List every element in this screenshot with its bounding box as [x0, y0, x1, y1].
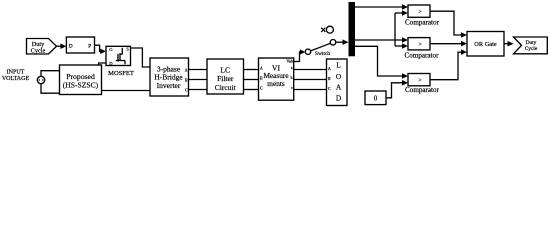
svg-text:LC: LC	[220, 65, 230, 74]
svg-text:O: O	[336, 72, 342, 81]
svg-text:(HS-SZSC): (HS-SZSC)	[63, 81, 99, 90]
svg-text:b: b	[291, 76, 293, 80]
wire source bottom to Proposed	[41, 84, 60, 94]
svg-text:>: >	[418, 78, 421, 84]
wires VI to LOAD	[294, 70, 327, 90]
svg-text:A: A	[260, 67, 263, 71]
mux bar	[349, 2, 356, 56]
svg-text:A: A	[328, 67, 331, 71]
switch common circle	[305, 49, 310, 54]
svg-text:INPUT: INPUT	[7, 70, 25, 76]
svg-text:S: S	[126, 47, 129, 52]
wires inverter to LC filter	[189, 70, 208, 90]
block LC Filter Circuit	[207, 59, 244, 94]
MOSFET symbol inside block	[116, 48, 126, 65]
svg-text:Filter: Filter	[217, 74, 234, 83]
svg-text:P: P	[88, 44, 91, 50]
svg-text:Comparator: Comparator	[405, 19, 440, 27]
MOSFET block	[106, 46, 131, 66]
svg-text:Cycle: Cycle	[525, 46, 538, 52]
block VI Measurements	[259, 58, 294, 100]
constant 0 block	[365, 91, 386, 105]
svg-text:0: 0	[374, 95, 378, 102]
svg-text:Cycle: Cycle	[31, 48, 46, 55]
block D/P	[66, 37, 94, 53]
wire comparator2 to OR gate	[430, 41, 467, 47]
switch open contact circle	[326, 26, 333, 33]
svg-text:Circuit: Circuit	[215, 83, 237, 92]
svg-text:>: >	[418, 42, 421, 48]
svg-text:D: D	[336, 94, 342, 103]
svg-text:Switch: Switch	[315, 51, 330, 57]
switch throw circle	[330, 40, 336, 46]
goto tag Duty Cycle (left)	[27, 39, 57, 55]
wire MOSFET S to inverter	[131, 48, 151, 67]
voltage source circle	[37, 76, 44, 83]
svg-text:L: L	[336, 61, 341, 70]
wire Proposed to inverter bottom	[102, 90, 151, 92]
wire MOSFET D to Proposed top	[99, 63, 106, 65]
wire tag to D/P block	[57, 43, 67, 49]
svg-text:Comparator: Comparator	[405, 51, 440, 59]
comparator C1	[405, 5, 440, 27]
wire Vab out of VI to switch	[294, 49, 306, 61]
svg-text:>: >	[418, 9, 421, 15]
INPUT VOLTAGE label	[2, 70, 30, 82]
svg-text:OR Gate: OR Gate	[474, 41, 497, 48]
OR gate block	[467, 32, 504, 57]
rail feeding comparator1 lower and comparator2 lower	[395, 10, 408, 49]
wire switch to bar	[336, 39, 349, 45]
wire P to MOSFET gate	[95, 45, 107, 54]
comparator C2	[405, 38, 440, 60]
block LOAD	[327, 59, 348, 106]
svg-text:A: A	[336, 83, 342, 92]
block 3-phase H-Bridge Inverter	[150, 58, 189, 96]
svg-text:Vab: Vab	[286, 59, 293, 64]
wire bar to comparator1 upper	[355, 4, 408, 10]
svg-text:VOLTAGE: VOLTAGE	[2, 76, 30, 82]
svg-text:Comparator: Comparator	[405, 86, 440, 94]
svg-text:A: A	[185, 69, 188, 73]
from tag Duty Cycle (right)	[514, 37, 548, 54]
wire bar down to comparator3 upper	[355, 46, 408, 79]
switch lever	[311, 43, 331, 51]
wire bar to comparator2 upper	[355, 37, 408, 43]
wire OR gate to from-tag	[504, 41, 514, 47]
switch open contact x	[321, 28, 325, 32]
wires LC to VI	[244, 70, 259, 90]
svg-text:Inverter: Inverter	[157, 81, 181, 90]
comparator C3	[405, 74, 440, 95]
wire comparator3 to OR gate	[430, 49, 467, 79]
wire comparator1 to OR gate	[430, 11, 467, 38]
svg-text:Duty: Duty	[526, 40, 537, 46]
svg-text:ments: ments	[267, 79, 285, 88]
block Proposed (HS-SZSC)	[60, 65, 102, 95]
wire source top to Proposed	[41, 71, 60, 77]
wire 0 to comparator3 lower	[386, 80, 408, 98]
svg-text:MOSFET: MOSFET	[108, 70, 134, 77]
svg-text:D: D	[69, 44, 73, 50]
